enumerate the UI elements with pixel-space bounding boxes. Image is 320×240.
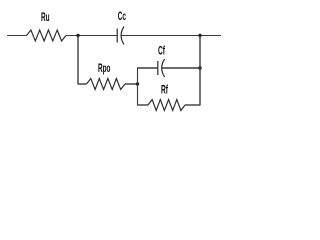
node D junction dot: [198, 66, 201, 69]
capacitor Cf: [158, 59, 165, 77]
wire: corner to Rpo: [78, 83, 87, 85]
wire: right vertical (node B to Rf branch): [199, 36, 201, 106]
svg-text:Ru: Ru: [41, 11, 50, 24]
wire: Cf branch left: [137, 67, 158, 69]
wire: Ru to Cc (through node A): [66, 35, 117, 37]
node B junction dot: [198, 34, 201, 37]
wire: Rpo to node C: [125, 83, 138, 85]
svg-text:Rpo: Rpo: [98, 62, 110, 75]
wire: left vertical of Cf/Rf block: [137, 68, 139, 105]
wire: Cc to right edge (through node B): [122, 35, 221, 37]
wire: node A down: [77, 36, 79, 85]
svg-text:Rf: Rf: [161, 84, 168, 97]
wire: Cf to right vertical: [162, 67, 200, 69]
wire: Rf branch left: [137, 104, 148, 106]
svg-text:Cc: Cc: [118, 10, 127, 23]
wire: left input to Ru: [7, 35, 27, 37]
resistor Rpo: [87, 79, 126, 90]
wire: Rf to right vertical: [185, 104, 201, 106]
resistor Ru: [27, 30, 67, 41]
capacitor Cc: [117, 27, 124, 45]
resistor Rf: [148, 100, 185, 111]
node C junction dot: [136, 82, 139, 85]
node A junction dot: [76, 34, 79, 37]
svg-text:Cf: Cf: [158, 45, 165, 58]
